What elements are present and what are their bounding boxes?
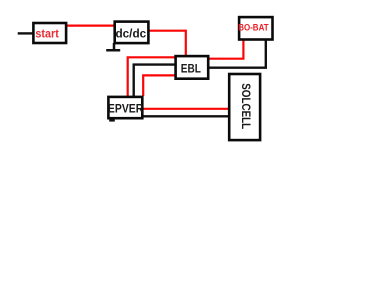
stub tick under EPVER bottom-left xyxy=(109,119,115,121)
wire: EBL left to EPVER top-right (red) xyxy=(143,75,176,96)
wire: EBL top-left to EPVER top (red) xyxy=(128,57,176,96)
svg-text:EPVER: EPVER xyxy=(108,103,143,116)
wire: EBL left to EPVER top (black) xyxy=(134,65,176,96)
wire: input stub left of start xyxy=(18,32,33,34)
block BO-BAT xyxy=(238,17,272,39)
block dc/dc xyxy=(115,22,149,43)
wire: start to dc/dc (red) xyxy=(66,25,114,27)
block SOLCELL xyxy=(229,74,260,140)
block start xyxy=(33,23,66,43)
wire: dc/dc to EBL top (red) xyxy=(147,31,186,56)
ground symbol under dc/dc xyxy=(106,43,120,50)
block EPVER xyxy=(108,97,143,118)
svg-text:SOLCELL: SOLCELL xyxy=(239,83,252,129)
svg-text:dc/dc: dc/dc xyxy=(115,26,146,40)
svg-text:EBL: EBL xyxy=(181,63,201,76)
block EBL xyxy=(176,56,209,79)
svg-text:BO-BAT: BO-BAT xyxy=(238,22,269,33)
wire: EPVER right to SOLCELL left (black) xyxy=(142,115,229,117)
wire: EBL right to BO-BAT bottom (black) xyxy=(207,40,266,68)
svg-text:start: start xyxy=(35,28,59,41)
wire: EBL right to BO-BAT bottom (red) xyxy=(207,40,243,59)
wire: EPVER right to SOLCELL left (red) xyxy=(142,108,229,110)
